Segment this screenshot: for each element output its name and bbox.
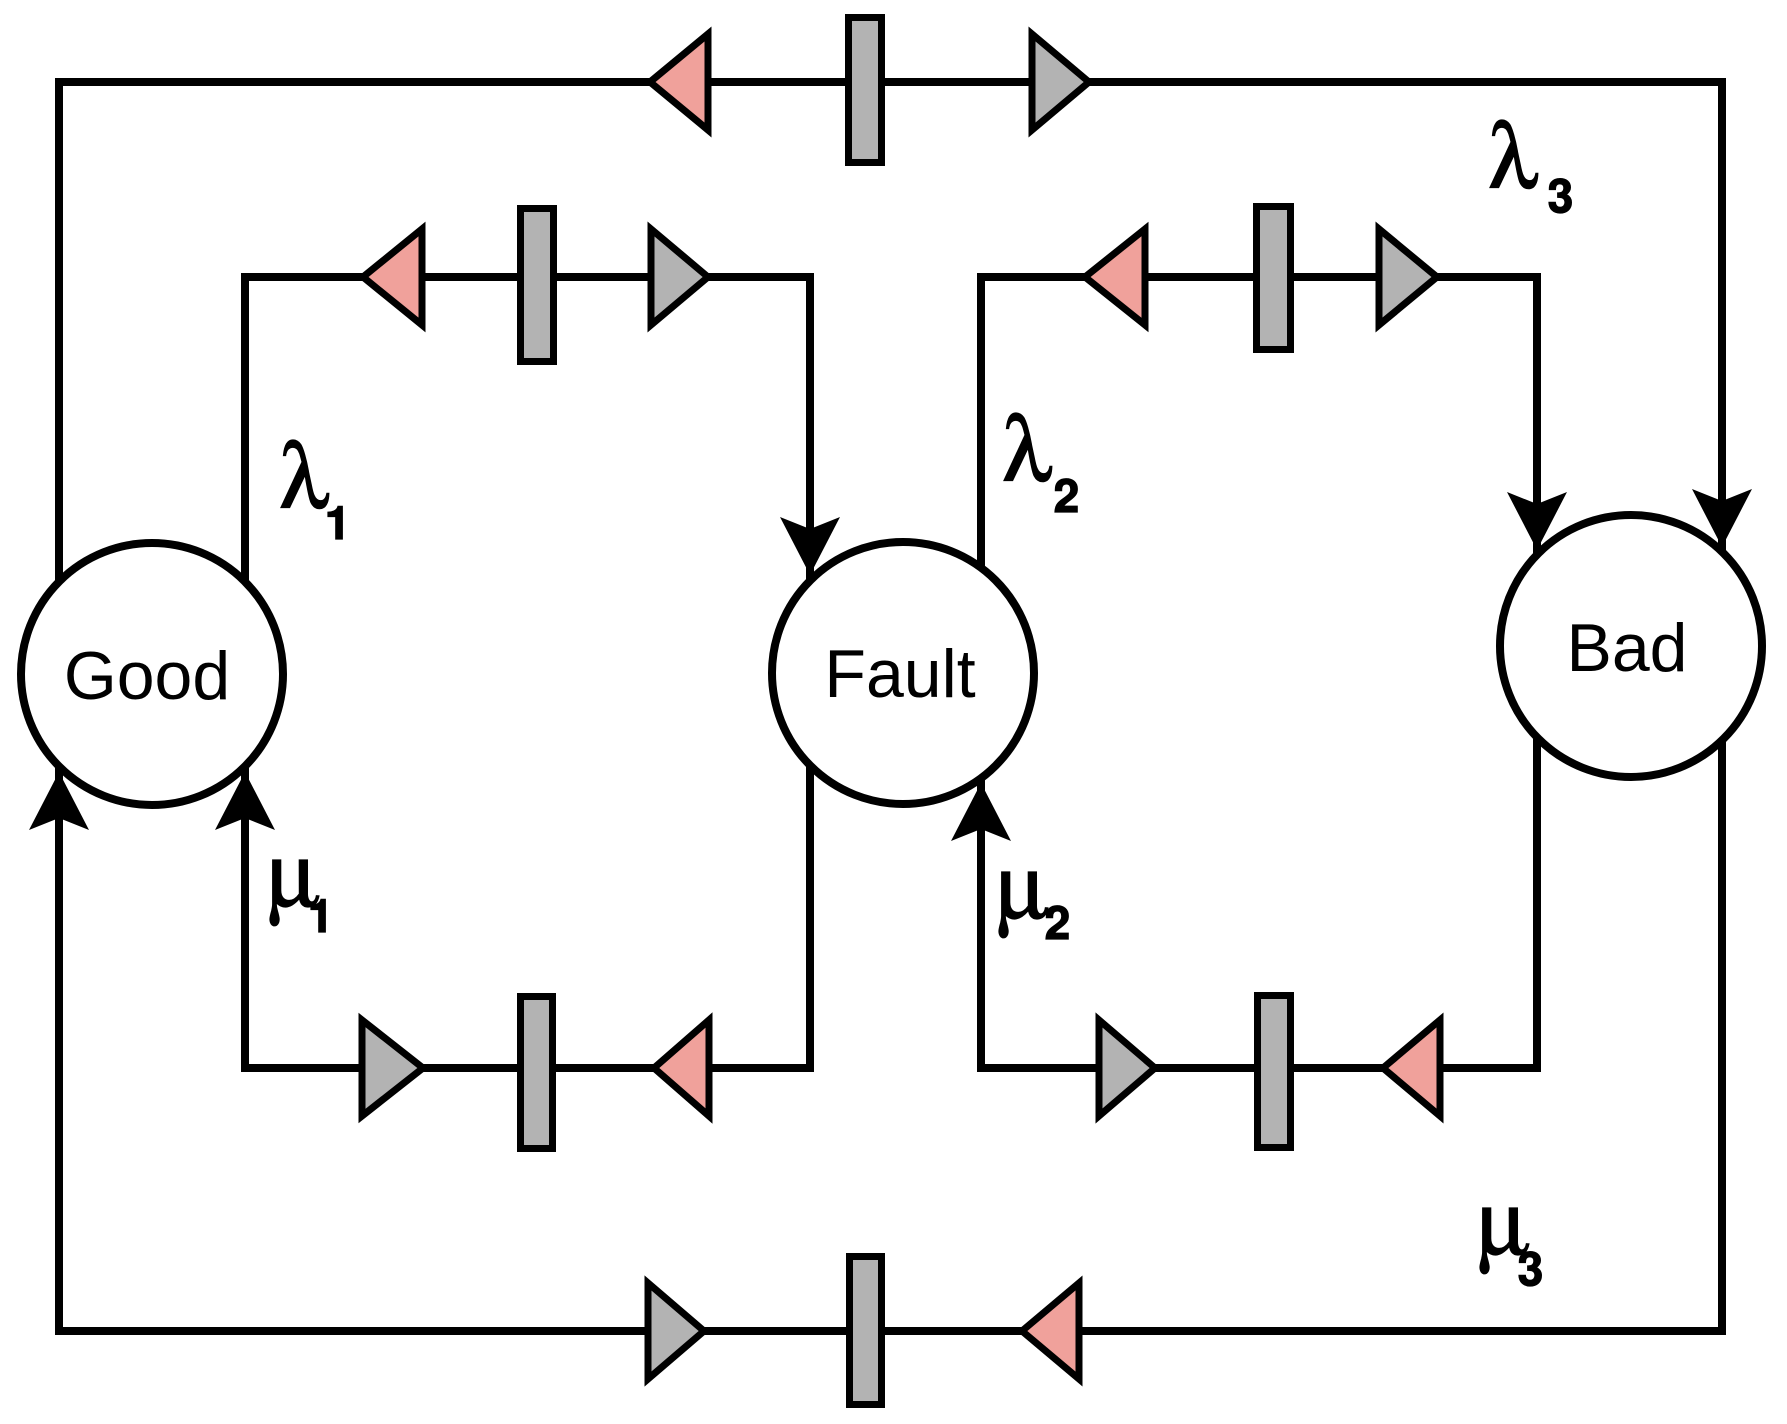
svg-text:Bad: Bad [1567,610,1688,686]
svg-text:Good: Good [64,638,230,714]
svg-text:Fault: Fault [824,636,975,712]
